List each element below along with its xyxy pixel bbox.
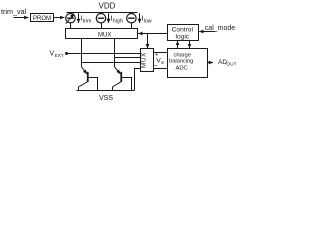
label AD_OUT [218, 59, 237, 67]
svg-text:logic: logic [176, 33, 190, 40]
svg-text:high: high [113, 18, 123, 24]
wire control logic to ADC (down arrow) [189, 41, 191, 49]
ADC box (charge balancing ADC) [168, 49, 208, 78]
ground rail VSS [77, 90, 135, 92]
mux MUX2 (voltage selector) [141, 49, 154, 72]
PROM box [31, 14, 54, 22]
svg-text:in: in [161, 60, 165, 65]
svg-text:PROM: PROM [33, 16, 51, 22]
wire VSS to MUX2 input 4 [135, 69, 141, 91]
svg-text:VSS: VSS [99, 95, 113, 102]
wire ADC to control logic (up arrow) [177, 41, 179, 49]
wire ADC output [208, 62, 214, 64]
svg-text:low: low [144, 18, 152, 24]
wire trim_val to PROM [14, 17, 29, 19]
wire MUX1 to Q1 emitter [81, 39, 83, 67]
wire MUX2 to ADC negative input [154, 68, 168, 70]
arrow and label I_low [140, 13, 152, 24]
current source I_trim (trimmable) [66, 13, 75, 29]
svg-text:MUX: MUX [98, 33, 111, 39]
arrow and label I_trim [79, 13, 93, 24]
power rail VDD [67, 12, 138, 14]
label V_EXT [50, 51, 64, 59]
svg-text:balancing: balancing [169, 59, 193, 65]
wire control logic to MUX1 select [138, 33, 167, 35]
arrow and label I_high [109, 13, 123, 24]
svg-text:cal_mode: cal_mode [205, 25, 235, 32]
svg-text:V: V [50, 51, 55, 58]
svg-text:OUT: OUT [226, 62, 236, 68]
svg-text:MUX: MUX [141, 52, 148, 68]
wire control logic to MUX2 select [147, 34, 149, 49]
transistor Q2 [113, 67, 132, 91]
node V_EXT terminal dot [65, 52, 68, 55]
transistor Q1 [79, 67, 98, 91]
svg-text:ADC: ADC [176, 66, 189, 72]
control logic box [168, 25, 199, 41]
svg-text:charge: charge [173, 52, 191, 58]
svg-text:trim: trim [83, 18, 92, 24]
wire Q2 emitter to MUX2 input 2 [115, 57, 141, 59]
wire cal_mode to control logic [199, 31, 215, 33]
svg-text:−: − [154, 63, 158, 70]
wire PROM to I_trim source [54, 17, 65, 19]
svg-text:trim_val: trim_val [1, 7, 27, 16]
svg-text:VDD: VDD [99, 1, 116, 10]
mux MUX1 (current selector) [66, 29, 138, 39]
current source I_high [96, 13, 105, 29]
wire V_EXT to MUX2 input 1 [67, 53, 141, 55]
svg-text:EXT: EXT [55, 53, 64, 58]
current source I_low [127, 13, 136, 29]
wire MUX2 to ADC positive input [154, 52, 168, 54]
wire Q1 emitter to MUX2 input 3 [82, 62, 141, 64]
wire MUX1 to Q2 emitter [114, 39, 116, 67]
label V_in [156, 57, 165, 65]
